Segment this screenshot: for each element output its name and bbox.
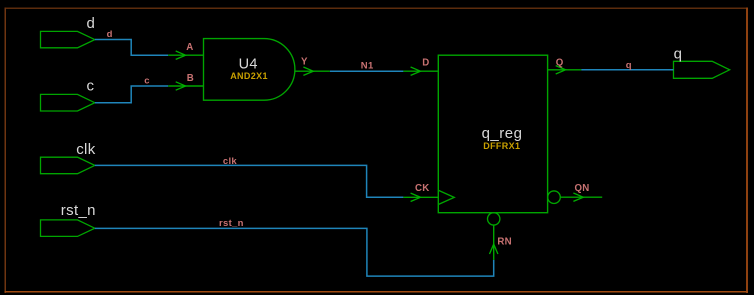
- svg-text:DFFRX1: DFFRX1: [483, 141, 520, 151]
- svg-text:q: q: [674, 46, 682, 63]
- q_reg pin QN line: [560, 196, 602, 198]
- svg-text:Y: Y: [301, 57, 308, 68]
- svg-text:D: D: [422, 58, 429, 69]
- svg-text:rst_n: rst_n: [219, 218, 244, 229]
- svg-text:clk: clk: [76, 141, 96, 158]
- svg-text:rst_n: rst_n: [61, 202, 96, 219]
- q_reg pin CK arrowhead: [411, 193, 421, 201]
- svg-text:Q: Q: [556, 58, 564, 69]
- U4 pin A line: [168, 54, 203, 56]
- AND gate U4 body: [204, 39, 295, 101]
- svg-text:d: d: [86, 15, 95, 32]
- svg-text:q_reg: q_reg: [482, 125, 523, 142]
- input port rst_n: [41, 220, 95, 237]
- U4 pin B line: [168, 85, 203, 87]
- U4 pin Y line: [295, 70, 330, 72]
- q_reg pin QN arrowhead: [573, 193, 583, 201]
- q_reg pin QN bubble: [548, 191, 561, 204]
- svg-text:N1: N1: [361, 61, 374, 72]
- q_reg pin Q line: [548, 69, 582, 71]
- U4 pin Y arrowhead: [303, 67, 313, 75]
- svg-text:clk: clk: [223, 156, 238, 167]
- q_reg pin D arrowhead: [411, 67, 421, 75]
- input port clk: [41, 157, 95, 174]
- svg-text:CK: CK: [415, 183, 430, 194]
- svg-text:RN: RN: [497, 236, 512, 247]
- q_reg pin CK line: [403, 196, 438, 198]
- wire net c: [95, 86, 168, 103]
- wire net N1: [330, 70, 404, 72]
- q_reg pin Q arrowhead: [556, 66, 566, 74]
- q_reg pin D line: [403, 70, 438, 72]
- q_reg clock triangle: [438, 190, 454, 204]
- svg-text:c: c: [144, 76, 149, 87]
- svg-text:A: A: [186, 42, 193, 53]
- wire net rst_n: [95, 228, 494, 276]
- U4 pin B arrowhead: [176, 82, 186, 90]
- flip-flop q_reg body: [438, 55, 547, 213]
- svg-text:c: c: [87, 78, 95, 95]
- input port d: [41, 31, 95, 47]
- wire net clk: [95, 165, 404, 197]
- q_reg pin RN line: [493, 225, 495, 260]
- svg-text:d: d: [107, 29, 113, 40]
- q_reg pin RN arrowhead: [490, 244, 498, 254]
- wire net d: [95, 40, 168, 56]
- U4 pin A arrowhead: [176, 51, 186, 59]
- svg-text:q: q: [626, 60, 632, 71]
- svg-text:U4: U4: [239, 56, 258, 72]
- output port q: [674, 61, 730, 78]
- svg-text:AND2X1: AND2X1: [230, 71, 268, 81]
- q_reg pin RN bubble: [488, 213, 500, 225]
- svg-text:QN: QN: [575, 183, 590, 194]
- svg-text:B: B: [187, 73, 194, 84]
- wire net q: [581, 69, 673, 71]
- input port c: [41, 94, 95, 111]
